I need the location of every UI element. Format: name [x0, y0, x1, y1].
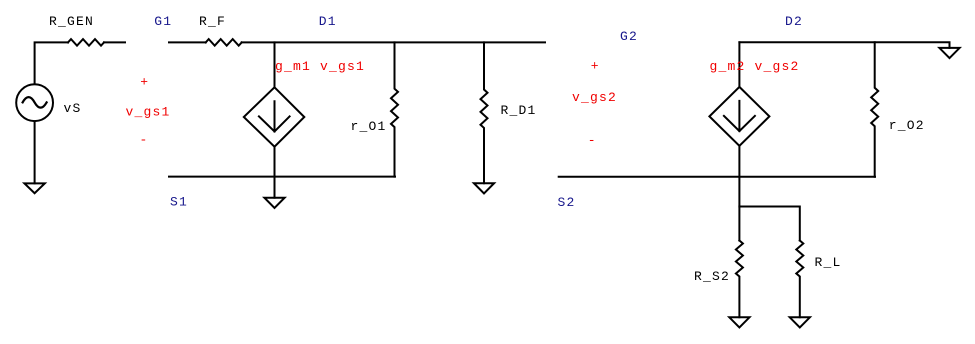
svg-text:R_GEN: R_GEN	[49, 14, 94, 29]
wire branch to R_L	[739, 207, 799, 241]
svg-text:R_F: R_F	[199, 14, 226, 29]
svg-text:v_gs1: v_gs1	[126, 104, 171, 119]
resistor R_F	[206, 39, 242, 46]
dependent current source g_m2 v_gs2 (diamond with down arrow)	[709, 87, 769, 146]
ground (below R_D1)	[474, 183, 494, 193]
resistor r_O2 with wires to D2 and S2 rails	[871, 42, 878, 176]
wire S2 bottom rail	[559, 176, 875, 178]
svg-text:G1: G1	[154, 14, 172, 29]
svg-text:g_m1 v_gs1: g_m1 v_gs1	[275, 59, 365, 74]
resistor R_GEN	[68, 39, 104, 46]
svg-text:vS: vS	[64, 101, 82, 116]
wire node D2 top rail stage 2	[739, 42, 949, 48]
wire R_GEN to open terminal	[104, 41, 125, 43]
svg-text:-: -	[588, 133, 597, 148]
svg-text:D1: D1	[319, 14, 337, 29]
svg-text:g_m2 v_gs2: g_m2 v_gs2	[710, 59, 800, 74]
resistor R_S2	[736, 241, 743, 318]
resistor R_L	[796, 241, 803, 318]
wire dependent source 2 down through S2 rail to R_S2	[738, 146, 740, 241]
voltage source vS (circle with sine)	[16, 84, 53, 121]
svg-text:-: -	[140, 133, 149, 148]
ground (top right, end of D2 rail)	[939, 48, 959, 58]
svg-text:+: +	[591, 58, 600, 73]
svg-text:R_L: R_L	[815, 255, 842, 270]
wire vS top to R_GEN	[35, 42, 68, 84]
svg-text:r_O1: r_O1	[351, 119, 387, 134]
ground (below R_S2)	[729, 317, 749, 327]
wire D2 rail down to dependent source 2	[738, 42, 740, 87]
wire D1 rail down to dependent source G1	[274, 42, 276, 87]
svg-text:+: +	[140, 74, 149, 89]
wire S1 bottom rail	[169, 176, 395, 178]
svg-text:R_D1: R_D1	[501, 103, 537, 118]
svg-text:S2: S2	[558, 195, 576, 210]
svg-text:v_gs2: v_gs2	[572, 90, 617, 105]
ground (stage 1, below S1 rail)	[264, 198, 284, 208]
resistor R_D1 with wire from D1 rail	[481, 42, 488, 183]
svg-text:G2: G2	[620, 29, 638, 44]
ground (below vS)	[24, 183, 44, 193]
svg-text:S1: S1	[170, 194, 188, 209]
dependent current source g_m1 v_gs1 (diamond with down arrow)	[244, 87, 304, 146]
wire R_F to node D1 (top rail stage 1)	[242, 41, 545, 43]
svg-text:D2: D2	[785, 14, 803, 29]
svg-text:R_S2: R_S2	[694, 269, 730, 284]
svg-text:r_O2: r_O2	[889, 118, 925, 133]
wire vS bottom	[34, 121, 36, 183]
resistor r_O1	[391, 42, 398, 176]
ground (below R_L)	[790, 317, 810, 327]
wire node G1 to R_F	[169, 41, 206, 43]
wire dependent source to S1 rail and ground stem	[274, 147, 276, 198]
